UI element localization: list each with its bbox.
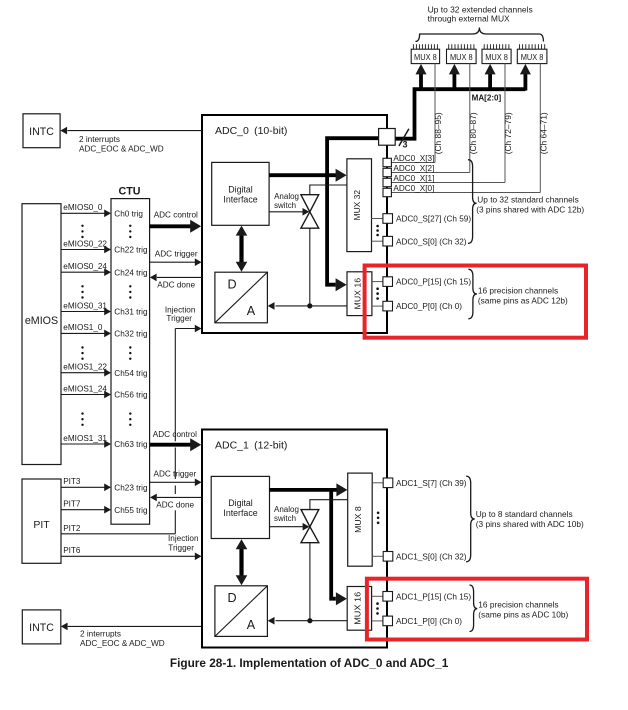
pin square ADC1_P[0] [383, 616, 393, 626]
wire eMIOS0_24 from eMIOS to CTU [61, 262, 111, 276]
svg-text:ADC0_X[2]: ADC0_X[2] [393, 164, 434, 173]
wire ADC_0 interrupts to INTC (top) [60, 127, 202, 135]
brace: 8 standard channels (ADC_1) [466, 476, 475, 562]
ellipsis dots MUX 16 pins (ADC_1) [376, 602, 379, 605]
block ADC_0 (10-bit) outline [202, 115, 387, 333]
svg-text:2 interrupts: 2 interrupts [79, 135, 120, 144]
svg-text:MUX 16: MUX 16 [354, 277, 363, 309]
wire MUX 16 to pin ADC1_P[0] [372, 620, 383, 622]
svg-text:MUX 8: MUX 8 [485, 53, 508, 62]
svg-text:eMIOS0_24: eMIOS0_24 [63, 262, 107, 271]
svg-text:Ch22 trig: Ch22 trig [114, 246, 148, 255]
svg-text:D: D [228, 591, 237, 605]
svg-text:MUX 16: MUX 16 [354, 591, 363, 624]
svg-text:Injection: Injection [168, 534, 199, 543]
brace: 16 precision channels (ADC_1) [470, 585, 478, 632]
block CTU outline [111, 199, 150, 525]
pin square ADC0_P[0] [383, 301, 393, 311]
svg-text:MUX 32: MUX 32 [353, 189, 362, 220]
svg-text:ADC_EOC & ADC_WD: ADC_EOC & ADC_WD [79, 144, 164, 153]
thick arrow Digital Interface to MUX 32 [269, 169, 346, 182]
wire eMIOS0_22 from eMIOS to CTU [61, 239, 111, 253]
wire ADC trigger CTU to ADC_0 [150, 250, 202, 266]
svg-text:A: A [247, 304, 256, 318]
wire ADC done ADC_1 to CTU [150, 494, 202, 510]
svg-text:ADC1_S[0] (Ch 32): ADC1_S[0] (Ch 32) [396, 552, 467, 561]
block INTC (top) [23, 114, 60, 148]
svg-text:Ch0 trig: Ch0 trig [114, 209, 143, 218]
block D/A converter (ADC_0) [215, 272, 268, 323]
thick bus branch down to MUX 16 (ADC_1) [331, 490, 347, 605]
wire analog switch bottom to D/A junction (ADC_0) [309, 228, 311, 306]
svg-text:Ch32 trig: Ch32 trig [114, 330, 148, 339]
svg-text:ADC trigger: ADC trigger [154, 470, 197, 479]
junction box with bus width slash /3 [379, 129, 396, 146]
thick arrow into MUX 8 #2 [449, 64, 460, 91]
block MUX 16 (ADC_0) [347, 272, 372, 316]
bus MA[2:0] trunk (thick) [395, 89, 525, 139]
svg-text:switch: switch [274, 201, 296, 210]
wire ADC control CTU to ADC_0 (thick) [150, 210, 202, 232]
wire ADC_1 interrupts to INTC (bottom) [61, 623, 203, 631]
wire from MUX 8 #4 down to ADC0_X[0] [539, 64, 541, 193]
pin square ADC0_S[0] [383, 236, 393, 246]
pin square ADC0_P[15] [383, 277, 393, 287]
thick bus from junction box down to MUX 16 (ADC_0) [327, 138, 379, 291]
pin square ADC1_S[0] [383, 552, 393, 562]
block INTC (bottom) [22, 610, 61, 644]
svg-text:eMIOS1_22: eMIOS1_22 [63, 363, 107, 372]
svg-text:Ch55 trig: Ch55 trig [114, 506, 148, 515]
svg-text:MUX 8: MUX 8 [521, 53, 544, 62]
svg-text:(same pins as ADC 10b): (same pins as ADC 10b) [478, 610, 568, 620]
svg-text:ADC0_X[0]: ADC0_X[0] [393, 184, 434, 193]
pin square ADC0_S[27] [383, 214, 393, 224]
wire PIT7 to CTU Ch55 [61, 500, 111, 514]
svg-text:(Ch 64–71): (Ch 64–71) [539, 112, 549, 154]
external mux MUX 8 #4 [517, 44, 547, 63]
wire eMIOS1_31 from eMIOS to CTU [61, 434, 111, 448]
svg-text:Figure 28-1. Implementation of: Figure 28-1. Implementation of ADC_0 and… [170, 656, 449, 670]
ellipsis dots MUX 8 pins (ADC_1) [377, 512, 380, 515]
pin square ADC1_S[7] [383, 478, 393, 488]
svg-text:PIT7: PIT7 [63, 500, 81, 509]
wire PIT2 (injection trigger source for ADC_0) [61, 524, 175, 534]
analog switch bowtie symbol (ADC_0) [301, 195, 319, 229]
svg-text:switch: switch [274, 514, 296, 523]
svg-text:3: 3 [403, 140, 408, 150]
svg-text:Interface: Interface [223, 508, 257, 518]
svg-text:MA[2:0]: MA[2:0] [472, 94, 502, 103]
svg-text:eMIOS: eMIOS [25, 315, 58, 327]
block MUX 32 (ADC_0) [347, 159, 372, 252]
brace: 16 precision channels (ADC_0) [468, 269, 477, 319]
pin square ADC0_X[0] [383, 188, 391, 196]
wire PIT6 injection trigger into ADC_1 [61, 546, 202, 560]
wire MUX 8 to pin ADC1_S[0] [372, 555, 383, 557]
svg-text:(3 pins shared with ADC 12b): (3 pins shared with ADC 12b) [476, 205, 584, 215]
wire pin ADC0_X[2] [391, 172, 470, 174]
svg-text:Up to 32 standard channels: Up to 32 standard channels [477, 195, 578, 205]
wire eMIOS1_22 from eMIOS to CTU [61, 363, 111, 377]
block Digital Interface (ADC_1) [211, 476, 269, 538]
svg-text:ADC0_X[3]: ADC0_X[3] [393, 154, 434, 163]
wire eMIOS0_31 from eMIOS to CTU [61, 301, 111, 315]
svg-text:ADC0_S[0] (Ch 32): ADC0_S[0] (Ch 32) [396, 237, 467, 246]
ellipsis dots between S pins (ADC_0) [376, 225, 379, 228]
wire from MUX 8 #1 down to ADC0_X[3] [434, 64, 436, 163]
svg-text:ADC_1 (12-bit): ADC_1 (12-bit) [215, 440, 287, 452]
red highlight box: ADC_1 precision channels [367, 579, 587, 640]
svg-text:A: A [247, 618, 256, 632]
svg-text:ADC1_P[15] (Ch 15): ADC1_P[15] (Ch 15) [396, 592, 471, 601]
svg-text:PIT6: PIT6 [63, 546, 81, 555]
svg-text:Trigger: Trigger [168, 544, 194, 553]
wire analog switch bottom to D/A junction (ADC_1) [309, 543, 311, 621]
svg-text:Digital: Digital [228, 498, 252, 508]
block MUX 16 (ADC_1) [347, 587, 371, 631]
svg-text:MUX 8: MUX 8 [450, 53, 473, 62]
analog switch bowtie symbol (ADC_1) [301, 510, 319, 543]
svg-text:ADC0_P[15] (Ch 15): ADC0_P[15] (Ch 15) [396, 278, 471, 287]
wire MUX 16 to pin ADC1_P[15] [372, 595, 383, 597]
wire junction to MUX 16 and arrow into D/A (ADC_1) [268, 617, 348, 625]
wire MUX 32 to pin ADC0_S[27] [372, 218, 384, 220]
svg-text:ADC0_S[27] (Ch 59): ADC0_S[27] (Ch 59) [396, 215, 471, 224]
svg-text:eMIOS0_22: eMIOS0_22 [63, 239, 107, 248]
block PIT [22, 479, 61, 563]
svg-text:D: D [228, 278, 237, 292]
svg-text:Ch56 trig: Ch56 trig [114, 391, 148, 400]
svg-text:ADC0_P[0] (Ch 0): ADC0_P[0] (Ch 0) [396, 302, 462, 311]
svg-text:PIT: PIT [33, 519, 50, 531]
thick arrow into MUX 8 #1 [416, 64, 427, 91]
svg-text:MUX 8: MUX 8 [414, 53, 437, 62]
svg-text:Ch24 trig: Ch24 trig [114, 268, 148, 277]
overbrace grouping external MUXes [415, 28, 543, 42]
external mux MUX 8 #3 [482, 44, 511, 63]
wire analog switch top to MUX 8 (ADC_1) [310, 500, 348, 510]
svg-text:eMIOS0_31: eMIOS0_31 [63, 301, 107, 310]
svg-text:16 precision channels: 16 precision channels [478, 599, 558, 609]
pin square ADC0_X[3] [383, 158, 391, 166]
pin square ADC0_X[1] [383, 178, 391, 186]
wire pin ADC0_X[0] [391, 192, 540, 194]
wire MUX 8 to pin ADC1_S[7] [372, 482, 383, 484]
wire eMIOS1_0 from eMIOS to CTU [61, 323, 111, 337]
svg-text:eMIOS1_24: eMIOS1_24 [63, 384, 107, 393]
wire analog switch top to MUX 32 (ADC_0) [310, 185, 347, 195]
svg-text:(same pins as ADC 12b): (same pins as ADC 12b) [478, 296, 568, 306]
wire pin ADC0_X[1] [391, 182, 505, 184]
block eMIOS [22, 204, 61, 465]
svg-text:Digital: Digital [228, 185, 252, 195]
svg-text:ADC_EOC & ADC_WD: ADC_EOC & ADC_WD [80, 639, 165, 648]
wire from MUX 8 #2 down to ADC0_X[2] [469, 64, 471, 173]
wire pin ADC0_X[3] [391, 162, 435, 164]
svg-text:Ch63 trig: Ch63 trig [114, 440, 148, 449]
svg-text:ADC trigger: ADC trigger [155, 250, 198, 259]
pin square ADC1_P[15] [383, 592, 393, 602]
svg-text:Ch23 trig: Ch23 trig [114, 483, 148, 492]
block ADC_1 (12-bit) outline [202, 430, 387, 648]
thick arrow into MUX 8 #4 [520, 64, 531, 91]
wire ADC control CTU to ADC_1 (thick) [150, 430, 202, 451]
thick double arrow Digital Interface and D/A (ADC_0) [236, 226, 248, 272]
wire MUX 16 to pin ADC0_P[15] [372, 281, 383, 283]
arrow Digital Interface to analog switch (ADC_0) [269, 208, 309, 216]
arrow Digital Interface to analog switch (ADC_1) [270, 523, 310, 531]
svg-text:eMIOS1_31: eMIOS1_31 [63, 434, 107, 443]
red highlight box: ADC_0 precision channels [365, 266, 586, 338]
svg-text:INTC: INTC [29, 622, 54, 634]
pin square ADC0_X[2] [383, 168, 391, 176]
svg-text:PIT2: PIT2 [63, 524, 81, 533]
wire from MUX 8 #3 down to ADC0_X[1] [504, 64, 506, 183]
svg-text:Analog: Analog [274, 192, 299, 201]
junction dot (ADC_1) [307, 618, 312, 623]
svg-text:(3 pins shared with ADC 10b): (3 pins shared with ADC 10b) [476, 519, 584, 529]
svg-text:ADC1_S[7] (Ch 39): ADC1_S[7] (Ch 39) [396, 479, 467, 488]
svg-text:Interface: Interface [223, 195, 257, 205]
external mux MUX 8 #2 [447, 44, 477, 63]
svg-text:ADC done: ADC done [157, 280, 195, 289]
ellipsis dots between P pins (ADC_0) [376, 287, 379, 290]
svg-text:(Ch 72–79): (Ch 72–79) [503, 112, 513, 154]
ellipsis dots eMIOS and CTU columns [81, 225, 131, 426]
svg-text:eMIOS1_0: eMIOS1_0 [63, 323, 103, 332]
svg-text:2 interrupts: 2 interrupts [80, 629, 121, 638]
svg-text:eMIOS0_0: eMIOS0_0 [63, 203, 103, 212]
svg-text:ADC0_X[1]: ADC0_X[1] [393, 174, 434, 183]
block Digital Interface (ADC_0) [212, 162, 269, 225]
wire PIT3 to CTU Ch23 [61, 477, 111, 491]
svg-text:Up to 8 standard channels: Up to 8 standard channels [476, 509, 573, 519]
svg-text:16 precision channels: 16 precision channels [478, 286, 558, 296]
wire injection trigger into ADC_0 [175, 325, 201, 333]
svg-text:(Ch 80–87): (Ch 80–87) [468, 112, 478, 154]
svg-text:INTC: INTC [29, 126, 54, 138]
wire eMIOS0_0 from eMIOS to CTU [61, 203, 111, 217]
svg-text:ADC control: ADC control [153, 430, 197, 439]
thick double arrow Digital Interface and D/A (ADC_1) [236, 539, 248, 585]
svg-text:PIT3: PIT3 [63, 477, 81, 486]
svg-text:ADC done: ADC done [156, 501, 194, 510]
svg-text:CTU: CTU [119, 185, 141, 197]
wire junction to MUX 16 and arrow into D/A (ADC_0) [268, 302, 347, 310]
wire MUX 32 to pin ADC0_S[0] [372, 240, 384, 242]
wire ADC done ADC_0 to CTU [150, 274, 202, 290]
thick arrow Digital Interface to MUX 8 (ADC_1) [270, 483, 348, 496]
svg-text:ADC_0 (10-bit): ADC_0 (10-bit) [215, 125, 287, 137]
vertical injection trigger wire PIT2 up to ADC_0 (with crossover gaps) [174, 329, 176, 534]
svg-text:MUX 8: MUX 8 [354, 506, 363, 533]
svg-text:Analog: Analog [274, 505, 299, 514]
svg-text:ADC control: ADC control [154, 210, 198, 219]
wire ADC trigger CTU to ADC_1 [150, 470, 202, 487]
wire MUX 16 to pin ADC0_P[0] [372, 305, 383, 307]
svg-text:Ch31 trig: Ch31 trig [114, 308, 148, 317]
block D/A converter (ADC_1) [215, 586, 268, 637]
svg-text:Ch54 trig: Ch54 trig [114, 369, 148, 378]
svg-text:(Ch 88–95): (Ch 88–95) [433, 112, 443, 154]
svg-text:ADC1_P[0] (Ch 0): ADC1_P[0] (Ch 0) [396, 617, 462, 626]
external mux MUX 8 #1 [411, 44, 439, 63]
thick arrow into MUX 8 #3 [485, 64, 496, 91]
block MUX 8 (ADC_1) [348, 473, 373, 566]
brace: 32 standard channels (ADC_0) [468, 160, 477, 244]
svg-text:Trigger: Trigger [166, 314, 192, 323]
junction dot (ADC_0) [307, 303, 312, 308]
svg-text:through external MUX: through external MUX [428, 14, 510, 24]
wire eMIOS1_24 from eMIOS to CTU [61, 384, 111, 398]
